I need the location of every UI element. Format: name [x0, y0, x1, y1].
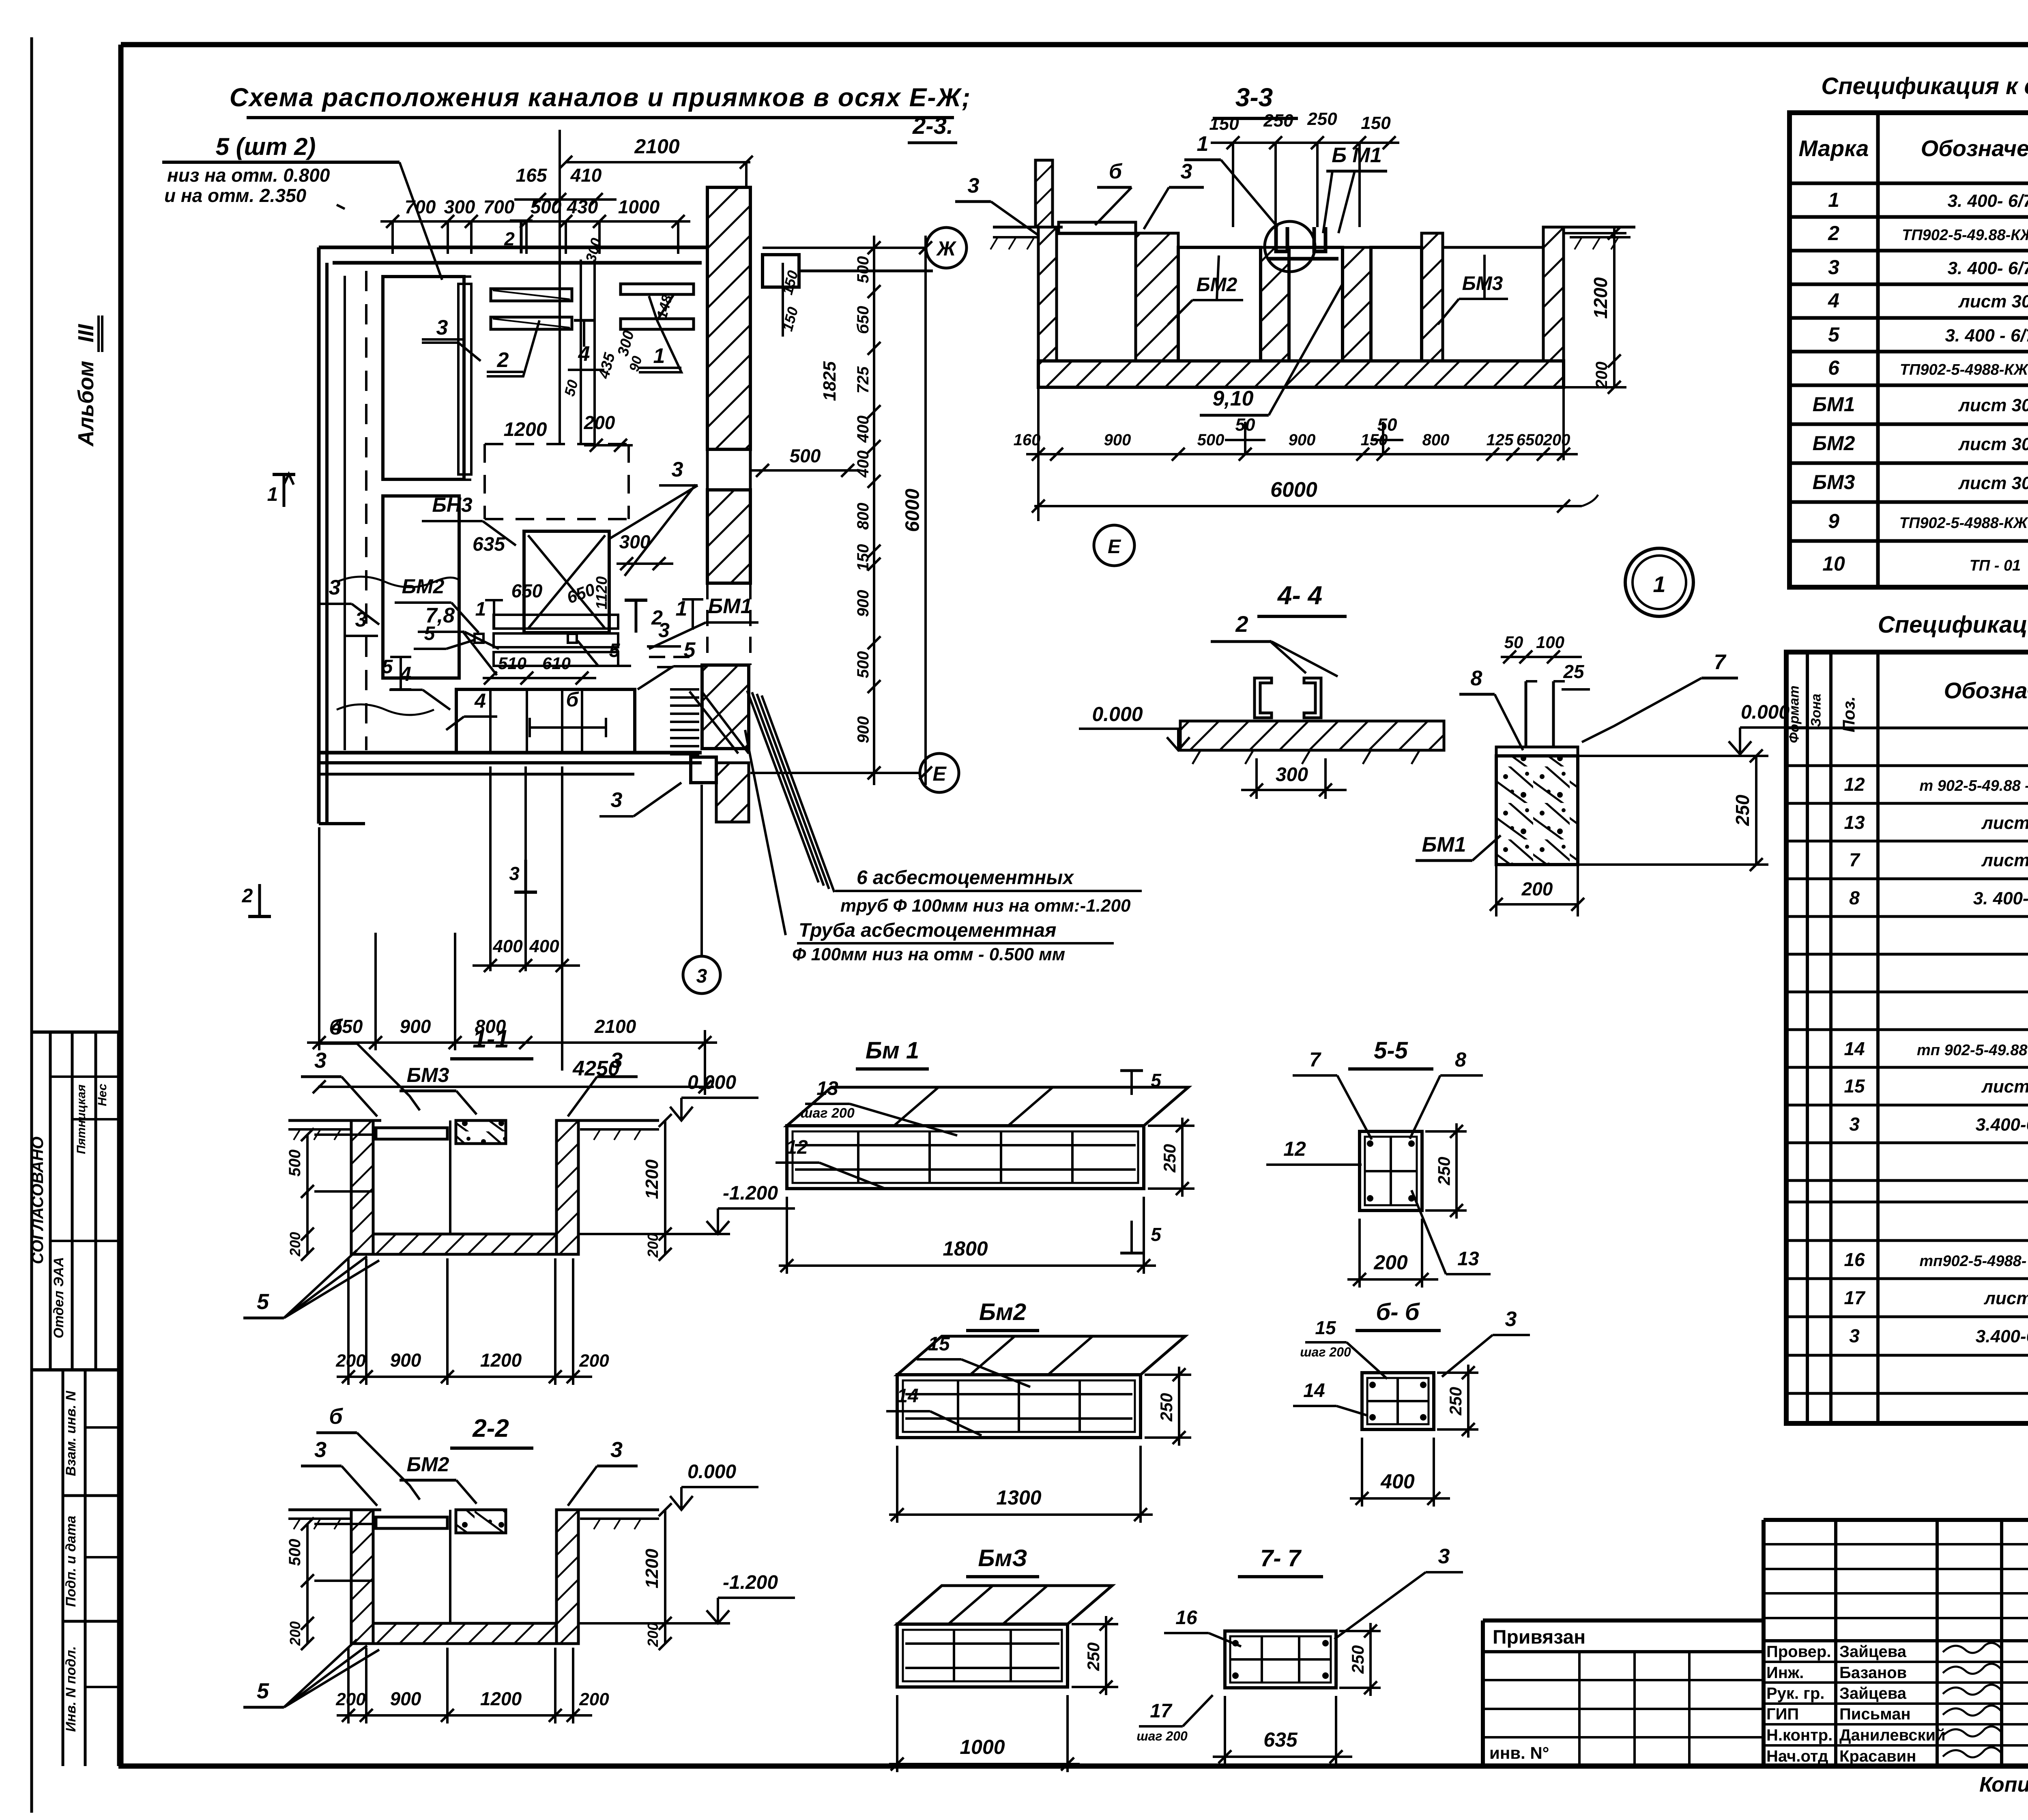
- svg-text:шаг 200: шаг 200: [800, 1105, 855, 1121]
- svg-text:1000: 1000: [960, 1736, 1005, 1758]
- svg-text:Красавин: Красавин: [1839, 1747, 1916, 1765]
- svg-text:Труба асбестоцементная: Труба асбестоцементная: [799, 920, 1056, 941]
- svg-text:650: 650: [1517, 431, 1544, 449]
- svg-text:250: 250: [1348, 1645, 1367, 1674]
- svg-text:250: 250: [1446, 1387, 1465, 1416]
- svg-text:1200: 1200: [642, 1159, 662, 1199]
- svg-text:Схема расположения каналов: Схема расположения каналов и приямков в …: [230, 83, 971, 112]
- svg-text:1800: 1800: [943, 1237, 988, 1260]
- svg-text:1200: 1200: [480, 1350, 522, 1371]
- svg-text:800: 800: [1422, 431, 1450, 449]
- svg-text:2-3.: 2-3.: [912, 113, 953, 139]
- svg-text:700: 700: [483, 196, 515, 217]
- svg-text:15: 15: [1844, 1075, 1865, 1097]
- svg-text:2: 2: [1828, 222, 1839, 245]
- svg-text:3.400-6/76: 3.400-6/76: [1976, 1115, 2028, 1135]
- svg-text:25: 25: [1563, 661, 1585, 682]
- svg-text:-1.200: -1.200: [723, 1183, 778, 1204]
- svg-text:1: 1: [653, 344, 665, 368]
- svg-text:13: 13: [1844, 812, 1865, 833]
- svg-text:2100: 2100: [594, 1016, 636, 1037]
- svg-text:12: 12: [1283, 1137, 1306, 1160]
- svg-text:лист 30: лист 30: [1981, 1077, 2028, 1097]
- svg-text:250: 250: [1084, 1642, 1103, 1671]
- svg-text:6000: 6000: [902, 489, 924, 532]
- svg-text:Отдел ЭАА: Отдел ЭАА: [51, 1257, 67, 1339]
- svg-text:5: 5: [1828, 323, 1840, 346]
- svg-text:5: 5: [257, 1290, 269, 1314]
- svg-text:7: 7: [1309, 1048, 1321, 1071]
- svg-text:Привязан: Привязан: [1493, 1627, 1585, 1648]
- svg-text:3: 3: [1181, 160, 1192, 183]
- svg-text:800: 800: [854, 503, 872, 530]
- svg-text:инв. N°: инв. N°: [1489, 1743, 1549, 1762]
- svg-text:Письман: Письман: [1839, 1705, 1911, 1723]
- svg-text:СОГЛАСОВАНО: СОГЛАСОВАНО: [29, 1137, 47, 1264]
- svg-text:17: 17: [1844, 1287, 1866, 1308]
- svg-text:200: 200: [335, 1689, 366, 1709]
- svg-text:1000: 1000: [618, 196, 660, 217]
- svg-text:5: 5: [257, 1679, 269, 1703]
- svg-text:лист30: лист30: [1984, 1288, 2028, 1308]
- svg-text:200: 200: [335, 1351, 366, 1371]
- svg-text:500: 500: [854, 651, 872, 678]
- svg-text:Обозначение: Обозначение: [1921, 135, 2028, 161]
- svg-text:БН3: БН3: [432, 494, 473, 516]
- svg-text:Взам. инв. N: Взам. инв. N: [63, 1390, 79, 1476]
- svg-text:3. 400- 6/76: 3. 400- 6/76: [1948, 258, 2028, 278]
- svg-text:Спецификация к схеме располож: Спецификация к схеме расположения канало…: [1821, 73, 2028, 99]
- svg-text:6 асбестоцементных: 6 асбестоцементных: [857, 867, 1074, 889]
- svg-text:лист 30: лист 30: [1958, 473, 2028, 493]
- svg-text:250: 250: [1263, 111, 1293, 131]
- svg-text:4: 4: [474, 689, 486, 712]
- svg-text:700: 700: [405, 196, 436, 217]
- svg-text:ТП - 01: ТП - 01: [1970, 557, 2021, 574]
- svg-text:2: 2: [1235, 611, 1248, 637]
- svg-text:1: 1: [1828, 189, 1839, 211]
- svg-text:3. 400-6/76: 3. 400-6/76: [1973, 889, 2028, 908]
- svg-text:7,8: 7,8: [425, 604, 455, 627]
- svg-text:Зайцева: Зайцева: [1839, 1643, 1907, 1661]
- svg-text:III: III: [74, 324, 98, 343]
- svg-text:200: 200: [584, 412, 615, 433]
- svg-text:шаг 200: шаг 200: [1136, 1729, 1188, 1743]
- svg-text:1-1: 1-1: [473, 1025, 509, 1053]
- svg-text:2: 2: [242, 885, 253, 907]
- svg-text:650: 650: [511, 580, 543, 601]
- svg-text:12: 12: [1844, 774, 1865, 795]
- svg-text:400: 400: [492, 936, 523, 956]
- svg-text:Е: Е: [932, 762, 947, 785]
- svg-text:3: 3: [1505, 1307, 1517, 1331]
- svg-text:9: 9: [1828, 510, 1839, 532]
- svg-text:3. 400 - 6/76: 3. 400 - 6/76: [1945, 326, 2028, 346]
- svg-text:250: 250: [1732, 794, 1753, 826]
- svg-text:5-5: 5-5: [1374, 1037, 1408, 1064]
- svg-text:2100: 2100: [634, 135, 679, 158]
- svg-text:и на отм. 2.350: и на отм. 2.350: [164, 185, 307, 206]
- svg-text:ТП902-5-4988-КЖИ-220.00: ТП902-5-4988-КЖИ-220.00: [1899, 515, 2028, 532]
- svg-text:Спецификация монолитных бал: Спецификация монолитных балок БМ1; БМ2; …: [1878, 612, 2028, 638]
- svg-text:900: 900: [855, 716, 872, 743]
- svg-text:250: 250: [1160, 1144, 1179, 1173]
- svg-text:Рук. гр.: Рук. гр.: [1766, 1685, 1824, 1702]
- svg-text:9,10: 9,10: [1212, 387, 1253, 410]
- svg-text:400: 400: [854, 451, 872, 478]
- svg-text:3: 3: [509, 863, 520, 884]
- svg-text:13: 13: [816, 1078, 838, 1099]
- svg-text:10: 10: [1822, 552, 1845, 575]
- svg-text:ТП902-5-49.88-КЖИ21000: ТП902-5-49.88-КЖИ21000: [1902, 227, 2028, 244]
- svg-text:165: 165: [516, 165, 548, 186]
- svg-text:Ж: Ж: [936, 237, 957, 260]
- svg-text:3: 3: [1438, 1545, 1450, 1568]
- svg-text:6: 6: [1828, 356, 1840, 379]
- svg-text:1200: 1200: [504, 419, 547, 440]
- svg-text:400: 400: [854, 416, 872, 443]
- svg-text:3: 3: [610, 1048, 623, 1073]
- svg-text:1200: 1200: [480, 1688, 522, 1709]
- svg-text:Пятницкая: Пятницкая: [75, 1084, 88, 1154]
- svg-text:Марка: Марка: [1799, 135, 1869, 161]
- svg-text:1: 1: [1653, 571, 1665, 597]
- svg-text:Зайцева: Зайцева: [1839, 1685, 1907, 1702]
- svg-text:Б М1: Б М1: [1332, 144, 1382, 167]
- svg-text:3: 3: [696, 966, 707, 987]
- svg-text:200: 200: [1543, 431, 1570, 449]
- svg-text:200: 200: [1593, 362, 1611, 389]
- svg-text:3.400-6/76: 3.400-6/76: [1976, 1326, 2028, 1346]
- svg-text:900: 900: [400, 1016, 431, 1037]
- svg-text:15: 15: [1315, 1317, 1336, 1338]
- svg-text:500: 500: [286, 1150, 304, 1177]
- svg-text:6000: 6000: [1270, 478, 1317, 502]
- svg-text:Зона: Зона: [1809, 693, 1824, 727]
- svg-text:50: 50: [1504, 633, 1523, 652]
- svg-text:3: 3: [355, 608, 367, 631]
- svg-text:150: 150: [854, 544, 872, 571]
- svg-text:1200: 1200: [1590, 277, 1611, 319]
- svg-text:635: 635: [1263, 1728, 1298, 1751]
- svg-text:лист 30: лист 30: [1958, 395, 2028, 415]
- svg-text:250: 250: [1435, 1157, 1454, 1185]
- svg-text:100: 100: [1536, 633, 1564, 652]
- svg-text:Поз.: Поз.: [1839, 696, 1858, 732]
- svg-text:1: 1: [1197, 132, 1209, 156]
- svg-text:труб Ф 100мм низ на отм:-1.200: труб Ф 100мм низ на отм:-1.200: [840, 896, 1131, 916]
- svg-text:2: 2: [497, 348, 509, 372]
- svg-text:160: 160: [1014, 431, 1041, 449]
- svg-text:3: 3: [1828, 256, 1839, 279]
- svg-text:14: 14: [1303, 1380, 1325, 1401]
- svg-text:3: 3: [611, 788, 623, 812]
- svg-text:БМ2: БМ2: [407, 1453, 449, 1476]
- svg-text:1825: 1825: [820, 361, 840, 401]
- svg-text:БМ3: БМ3: [1813, 471, 1855, 494]
- svg-text:150: 150: [1361, 113, 1391, 133]
- svg-text:Инж.: Инж.: [1766, 1664, 1804, 1682]
- svg-text:1200: 1200: [642, 1549, 662, 1588]
- svg-text:300: 300: [1276, 764, 1308, 786]
- svg-text:12: 12: [786, 1137, 808, 1158]
- svg-text:б: б: [329, 1015, 343, 1039]
- svg-text:Бм 1: Бм 1: [866, 1037, 919, 1064]
- svg-text:250: 250: [1307, 109, 1337, 129]
- svg-text:3: 3: [314, 1048, 327, 1073]
- svg-text:лист 30: лист 30: [1958, 434, 2028, 454]
- svg-text:900: 900: [1104, 431, 1131, 449]
- svg-text:5 (шт 2): 5 (шт 2): [216, 133, 316, 160]
- svg-text:-1.200: -1.200: [723, 1572, 778, 1593]
- svg-text:б: б: [1109, 160, 1123, 183]
- svg-text:200: 200: [644, 1233, 661, 1258]
- svg-text:1: 1: [475, 599, 486, 620]
- svg-text:400: 400: [529, 936, 559, 956]
- svg-text:лист 30: лист 30: [1981, 850, 2028, 870]
- svg-text:500: 500: [1197, 431, 1225, 449]
- svg-text:50: 50: [1377, 415, 1397, 435]
- svg-text:0.000: 0.000: [1741, 702, 1790, 723]
- svg-text:3: 3: [610, 1438, 623, 1462]
- svg-text:5: 5: [1151, 1224, 1162, 1245]
- svg-text:3: 3: [329, 576, 341, 599]
- svg-text:16: 16: [1175, 1607, 1197, 1629]
- svg-text:низ на отм. 0.800: низ на отм. 0.800: [167, 165, 330, 186]
- svg-text:т 902-5-49.88 -КЖИ-130.00: т 902-5-49.88 -КЖИ-130.00: [1919, 777, 2028, 794]
- svg-text:7: 7: [1849, 849, 1860, 870]
- svg-text:200: 200: [579, 1351, 609, 1371]
- svg-text:200: 200: [644, 1623, 661, 1647]
- svg-text:БМ1: БМ1: [1813, 393, 1855, 416]
- svg-text:14: 14: [897, 1385, 918, 1407]
- svg-text:3: 3: [1849, 1325, 1860, 1346]
- svg-text:3. 400- 6/76: 3. 400- 6/76: [1948, 191, 2028, 211]
- svg-text:4- 4: 4- 4: [1277, 581, 1322, 610]
- svg-text:7- 7: 7- 7: [1260, 1545, 1302, 1571]
- svg-text:900: 900: [1289, 431, 1316, 449]
- svg-text:3: 3: [436, 316, 448, 339]
- svg-text:Бм2: Бм2: [979, 1299, 1026, 1325]
- svg-text:200: 200: [287, 1621, 303, 1646]
- svg-text:15: 15: [928, 1333, 950, 1355]
- svg-text:ГИП: ГИП: [1766, 1705, 1799, 1723]
- svg-text:1300: 1300: [996, 1486, 1041, 1509]
- svg-text:тп902-5-4988- КЖИ 130.00: тп902-5-4988- КЖИ 130.00: [1919, 1253, 2028, 1270]
- svg-text:200: 200: [1373, 1251, 1408, 1274]
- svg-text:лист 30: лист 30: [1981, 813, 2028, 833]
- svg-text:3-3: 3-3: [1235, 83, 1273, 112]
- svg-text:БМ1: БМ1: [1422, 833, 1466, 856]
- svg-text:8: 8: [1455, 1048, 1466, 1071]
- svg-text:8: 8: [1849, 887, 1860, 908]
- svg-text:500: 500: [286, 1539, 304, 1566]
- svg-text:300: 300: [444, 196, 475, 217]
- svg-text:БМ1: БМ1: [708, 595, 752, 618]
- svg-text:900: 900: [390, 1688, 421, 1709]
- svg-text:2-2: 2-2: [472, 1414, 509, 1442]
- svg-text:БМ3: БМ3: [1462, 273, 1503, 294]
- svg-text:16: 16: [1844, 1249, 1865, 1270]
- svg-text:лист 30: лист 30: [1958, 292, 2028, 311]
- svg-text:б50: б50: [854, 306, 872, 334]
- svg-text:Ф 100мм низ на отм - 0.500 мм: Ф 100мм низ на отм - 0.500 мм: [792, 944, 1065, 964]
- svg-text:ТП902-5-4988-КЖИ170, 00: ТП902-5-4988-КЖИ170, 00: [1900, 361, 2028, 378]
- svg-text:200: 200: [1521, 878, 1553, 899]
- svg-text:тп 902-5-49.88-КЖИ-140.00: тп 902-5-49.88-КЖИ-140.00: [1917, 1042, 2028, 1059]
- svg-text:б- б: б- б: [1376, 1299, 1420, 1325]
- svg-text:0.000: 0.000: [687, 1072, 736, 1093]
- svg-text:3: 3: [658, 619, 670, 642]
- svg-text:б: б: [329, 1404, 343, 1429]
- svg-text:13: 13: [1457, 1248, 1479, 1270]
- svg-text:4: 4: [1828, 289, 1839, 312]
- svg-text:410: 410: [570, 165, 602, 186]
- svg-text:1120: 1120: [593, 576, 610, 610]
- svg-text:14: 14: [1844, 1038, 1865, 1059]
- svg-text:7: 7: [1714, 650, 1727, 674]
- svg-text:БМ3: БМ3: [407, 1064, 449, 1086]
- svg-text:200: 200: [579, 1689, 609, 1709]
- svg-text:500: 500: [854, 256, 872, 283]
- svg-text:5: 5: [1151, 1070, 1162, 1091]
- svg-text:725: 725: [854, 366, 872, 393]
- svg-text:900: 900: [854, 590, 872, 617]
- svg-text:635: 635: [473, 534, 505, 555]
- svg-text:250: 250: [1157, 1393, 1176, 1422]
- svg-text:2: 2: [504, 228, 515, 249]
- svg-text:5: 5: [609, 640, 621, 661]
- svg-text:Альбом: Альбом: [74, 361, 98, 447]
- svg-text:Инв. N подл.: Инв. N подл.: [63, 1646, 79, 1732]
- svg-text:Е: Е: [1108, 536, 1121, 558]
- svg-text:5: 5: [382, 656, 393, 678]
- svg-text:Данилевский: Данилевский: [1839, 1726, 1946, 1744]
- svg-text:0.000: 0.000: [1092, 703, 1143, 725]
- svg-text:БмЗ: БмЗ: [978, 1545, 1027, 1571]
- svg-text:3: 3: [1849, 1114, 1860, 1135]
- svg-text:610: 610: [542, 654, 571, 673]
- svg-text:Н.контр.: Н.контр.: [1766, 1726, 1833, 1744]
- svg-text:900: 900: [390, 1350, 421, 1371]
- svg-text:Нес: Нес: [96, 1084, 109, 1106]
- svg-text:Обозначение: Обозначение: [1944, 678, 2028, 703]
- svg-text:510: 510: [498, 654, 526, 673]
- svg-text:3: 3: [672, 458, 683, 481]
- svg-text:3: 3: [968, 174, 980, 197]
- svg-text:Копировал: Антипова 22889-02: Копировал: Антипова 22889-02 41: [1979, 1773, 2028, 1796]
- svg-text:Базанов: Базанов: [1839, 1664, 1907, 1682]
- svg-text:500: 500: [790, 445, 821, 466]
- svg-text:3: 3: [314, 1438, 327, 1462]
- svg-text:5: 5: [684, 638, 696, 662]
- svg-text:шаг 200: шаг 200: [1300, 1345, 1351, 1359]
- svg-text:БМ2: БМ2: [1813, 432, 1855, 455]
- svg-text:17: 17: [1150, 1700, 1173, 1722]
- svg-text:125: 125: [1487, 431, 1514, 449]
- svg-text:Нач.отд: Нач.отд: [1766, 1747, 1828, 1765]
- svg-text:1: 1: [267, 484, 278, 505]
- svg-text:Подп. и дата: Подп. и дата: [63, 1515, 79, 1607]
- svg-text:б: б: [566, 688, 580, 711]
- svg-text:Провер.: Провер.: [1766, 1643, 1831, 1661]
- svg-text:0.000: 0.000: [687, 1461, 736, 1483]
- svg-text:200: 200: [287, 1232, 303, 1257]
- svg-text:150: 150: [1209, 114, 1239, 134]
- svg-text:8: 8: [1471, 667, 1482, 690]
- svg-text:400: 400: [1380, 1470, 1415, 1493]
